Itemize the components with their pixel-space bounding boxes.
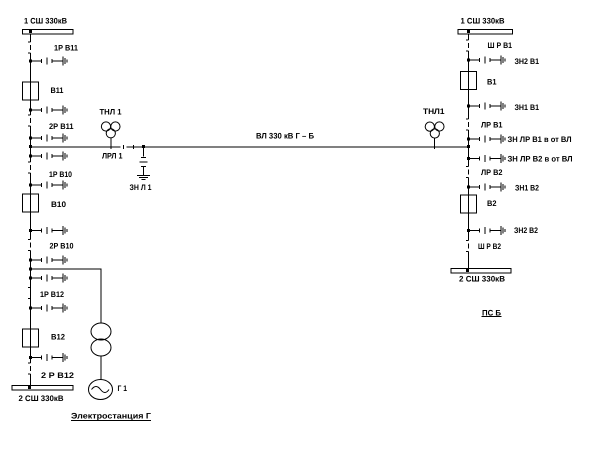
- label Ш Р В2: [478, 242, 501, 251]
- earthing switch ЗН1 В2: [467, 183, 505, 192]
- label ЗН1 В2: [515, 184, 539, 193]
- svg-text:ТНЛ1: ТНЛ1: [423, 107, 445, 116]
- svg-text:ЛРЛ 1: ЛРЛ 1: [102, 152, 123, 161]
- svg-text:Г 1: Г 1: [118, 384, 128, 393]
- disconnector ЛР В2 (in-line break): [466, 167, 469, 178]
- earthing switch ЗН ЛР В1: [467, 135, 505, 144]
- disconnector 1Р В10 (in-line break): [28, 162, 31, 173]
- label ЛР В1: [481, 121, 503, 130]
- label 1Р В12: [40, 290, 64, 299]
- svg-text:ЗН ЛР В2 в от ВЛ: ЗН ЛР В2 в от ВЛ: [508, 155, 573, 164]
- svg-text:В12: В12: [51, 333, 66, 342]
- earthing switch at node above В10: [29, 181, 67, 190]
- label ЗН2 В1: [515, 57, 540, 66]
- svg-text:ЛР В2: ЛР В2: [481, 168, 503, 177]
- label 2Р В10: [50, 242, 74, 251]
- label ЗН ЛР В1 в от ВЛ: [508, 135, 572, 144]
- label В11: [51, 86, 65, 95]
- junction dot at right column on line: [467, 145, 470, 148]
- svg-text:В10: В10: [51, 200, 67, 209]
- svg-text:1 СШ 330кВ: 1 СШ 330кВ: [461, 17, 505, 26]
- label ЗН ЛР В2 в от ВЛ: [508, 155, 573, 164]
- wire left column: [30, 34, 32, 386]
- svg-text:2Р В11: 2Р В11: [49, 122, 74, 131]
- label Г 1: [118, 384, 128, 393]
- svg-text:2 СШ 330кВ: 2 СШ 330кВ: [19, 394, 64, 403]
- disconnector Ш Р В2 (in-line break): [466, 241, 469, 252]
- earthing switch ЗН2 В2: [467, 226, 505, 235]
- label 2 СШ 330кВ (right): [459, 275, 505, 284]
- breaker В10: [23, 194, 39, 212]
- bus 2 СШ 330кВ (left): [12, 386, 73, 391]
- breaker В11: [23, 82, 39, 100]
- label В12: [51, 333, 66, 342]
- svg-text:В11: В11: [51, 86, 65, 95]
- earthing switch at node below В11: [29, 106, 67, 115]
- svg-text:ЗН2 В1: ЗН2 В1: [515, 57, 540, 66]
- svg-text:ЗН1 В2: ЗН1 В2: [515, 184, 539, 193]
- label ЗН1 В1: [515, 103, 540, 112]
- label Ш Р В1: [488, 41, 513, 50]
- earthing switch at node above branch: [29, 256, 67, 265]
- label В1: [487, 78, 497, 87]
- svg-text:В2: В2: [487, 199, 497, 208]
- disconnector Ш Р В1 (in-line break): [466, 40, 469, 51]
- label ТНЛ1 (right): [423, 107, 445, 116]
- svg-text:Электростанция Г: Электростанция Г: [71, 412, 152, 421]
- breaker В2: [461, 195, 477, 213]
- earthing switch ЗН2 В1: [467, 56, 505, 65]
- transformer T (generator step-up, two windings): [91, 323, 111, 356]
- label ЛР В2: [481, 168, 503, 177]
- svg-text:Ш Р В1: Ш Р В1: [488, 41, 513, 50]
- disconnector 2Р В11 (in-line break): [28, 115, 31, 126]
- disconnector 2Р В10 (in-line break): [28, 240, 31, 251]
- label 2 СШ 330кВ (left): [19, 394, 64, 403]
- label В10: [51, 200, 67, 209]
- voltage transformer ТНЛ 1 (right): [425, 122, 444, 149]
- wire transformer to generator: [100, 356, 102, 380]
- label 2Р В11: [49, 122, 74, 131]
- label Электростанция Г (underlined): [71, 412, 152, 421]
- svg-text:2 СШ 330кВ: 2 СШ 330кВ: [459, 275, 505, 284]
- label ЛРЛ 1: [102, 152, 123, 161]
- label 1Р В11: [54, 44, 78, 53]
- svg-text:2Р В10: 2Р В10: [50, 242, 74, 251]
- junction dot branch: [29, 268, 32, 271]
- label В2: [487, 199, 497, 208]
- svg-text:Ш Р В2: Ш Р В2: [478, 242, 501, 251]
- earthing switch at node below line junction: [29, 152, 67, 161]
- wire branch to transformer: [31, 269, 102, 323]
- disconnector ЛР В1 (in-line break): [466, 119, 469, 130]
- earthing switch at node above line junction: [29, 134, 67, 143]
- disconnector ЛРЛ 1 (break on line): [123, 145, 125, 149]
- svg-text:ВЛ 330 кВ Г – Б: ВЛ 330 кВ Г – Б: [256, 132, 314, 141]
- earthing switch ЗН ЛР В2: [467, 154, 505, 163]
- label ПС Б (underlined): [482, 309, 502, 318]
- earthing switch ЗН Л 1: [137, 145, 150, 180]
- generator Г 1: [89, 380, 113, 400]
- svg-text:ЗН Л 1: ЗН Л 1: [130, 183, 152, 192]
- earthing switch at node below В12: [29, 353, 67, 362]
- svg-text:ЗН1 В1: ЗН1 В1: [515, 103, 540, 112]
- bus 1 СШ 330кВ (left): [23, 30, 74, 35]
- disconnector 1Р В12 (in-line break): [28, 288, 31, 299]
- svg-text:ЛР В1: ЛР В1: [481, 121, 503, 130]
- label ВЛ 330 кВ Г – Б: [256, 132, 314, 141]
- earthing switch at node above В12: [29, 304, 67, 313]
- svg-text:2 Р В12: 2 Р В12: [41, 371, 75, 380]
- svg-text:ТНЛ 1: ТНЛ 1: [100, 108, 123, 117]
- junction dot at left column on line: [29, 145, 32, 148]
- earthing switch ЗН1 В1: [467, 102, 505, 111]
- earthing switch at node below 1Р В11: [29, 57, 67, 66]
- svg-text:1Р В11: 1Р В11: [54, 44, 78, 53]
- svg-text:ЗН2 В2: ЗН2 В2: [514, 226, 538, 235]
- svg-text:1 СШ 330кВ: 1 СШ 330кВ: [24, 17, 67, 26]
- svg-text:1Р В10: 1Р В10: [49, 170, 72, 179]
- label 1Р В10: [49, 170, 72, 179]
- label 2 Р В12: [41, 371, 75, 380]
- label 1 СШ 330кВ (right): [461, 17, 505, 26]
- label ЗН Л 1: [130, 183, 152, 192]
- wire ВЛ 330 кВ Г–Б: [31, 146, 469, 148]
- disconnector 1Р В11 (in-line break): [28, 42, 31, 53]
- wire right column: [468, 34, 470, 269]
- junction tick on line: [133, 145, 135, 149]
- label ЗН2 В2: [514, 226, 538, 235]
- svg-text:В1: В1: [487, 78, 497, 87]
- disconnector 2 Р В12 (in-line break): [28, 363, 31, 374]
- earthing switch at node below branch: [29, 274, 67, 283]
- label ТНЛ 1 (left): [100, 108, 123, 117]
- bus 1 СШ 330кВ (right): [458, 30, 513, 35]
- voltage transformer ТНЛ 1 (left): [101, 122, 120, 149]
- svg-text:1Р В12: 1Р В12: [40, 290, 64, 299]
- bus 2 СШ 330кВ (right): [451, 269, 511, 274]
- breaker В1: [461, 72, 477, 90]
- label 1 СШ 330кВ (left): [24, 17, 67, 26]
- breaker В12: [23, 329, 39, 347]
- svg-text:ЗН ЛР В1 в от ВЛ: ЗН ЛР В1 в от ВЛ: [508, 135, 572, 144]
- earthing switch at node below В10: [29, 226, 67, 235]
